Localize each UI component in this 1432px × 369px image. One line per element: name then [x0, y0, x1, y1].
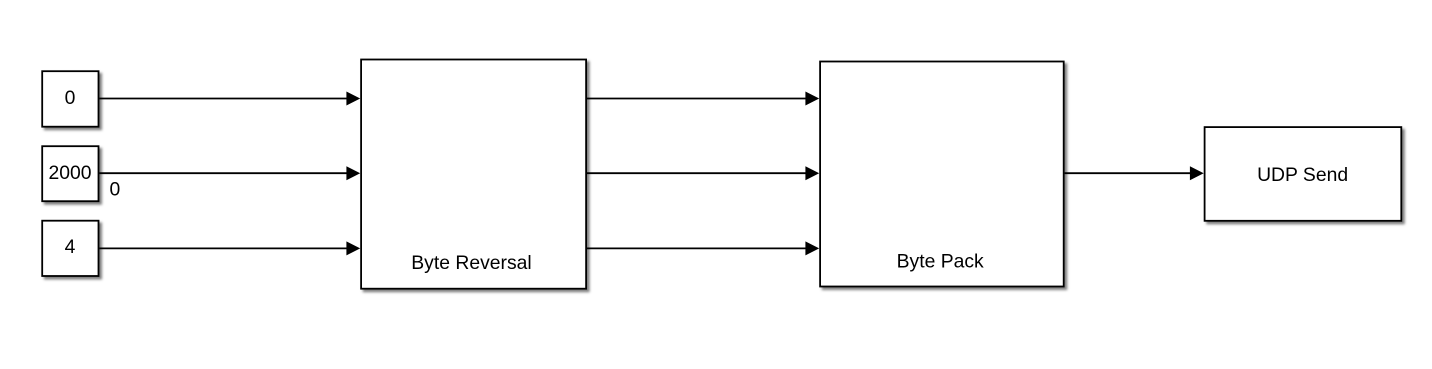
svg-text:4: 4: [65, 236, 76, 258]
wire from "4" to Byte Reversal in3: [99, 247, 347, 249]
wire from "2000" to Byte Reversal in2: [99, 172, 347, 174]
constant block "4": [42, 221, 98, 276]
arrowhead into Byte Pack in2: [805, 166, 819, 180]
svg-text:2000: 2000: [48, 162, 91, 184]
wire Byte Reversal out3 to Byte Pack in3: [587, 247, 807, 249]
wire Byte Reversal out2 to Byte Pack in2: [587, 172, 807, 174]
svg-text:Byte Pack: Byte Pack: [897, 251, 984, 273]
Byte Pack block: [820, 62, 1064, 287]
arrowhead into Byte Pack in1: [805, 92, 819, 106]
arrowhead into Byte Reversal in1: [346, 92, 360, 106]
UDP Send block: [1205, 127, 1402, 221]
arrowhead into Byte Pack in3: [805, 241, 819, 255]
wire Byte Pack out to UDP Send: [1065, 172, 1192, 174]
arrowhead into UDP Send: [1190, 166, 1204, 180]
arrowhead into Byte Reversal in2: [346, 166, 360, 180]
wire Byte Reversal out1 to Byte Pack in1: [587, 98, 807, 100]
svg-text:0: 0: [65, 87, 76, 109]
arrowhead into Byte Reversal in3: [346, 241, 360, 255]
Byte Reversal block: [361, 60, 586, 289]
svg-text:UDP Send: UDP Send: [1257, 164, 1348, 186]
constant block "0": [42, 71, 98, 127]
svg-text:Byte Reversal: Byte Reversal: [411, 252, 531, 274]
constant block "2000": [42, 146, 98, 201]
wire from "0" to Byte Reversal in1: [99, 98, 347, 100]
svg-text:0: 0: [110, 178, 121, 200]
